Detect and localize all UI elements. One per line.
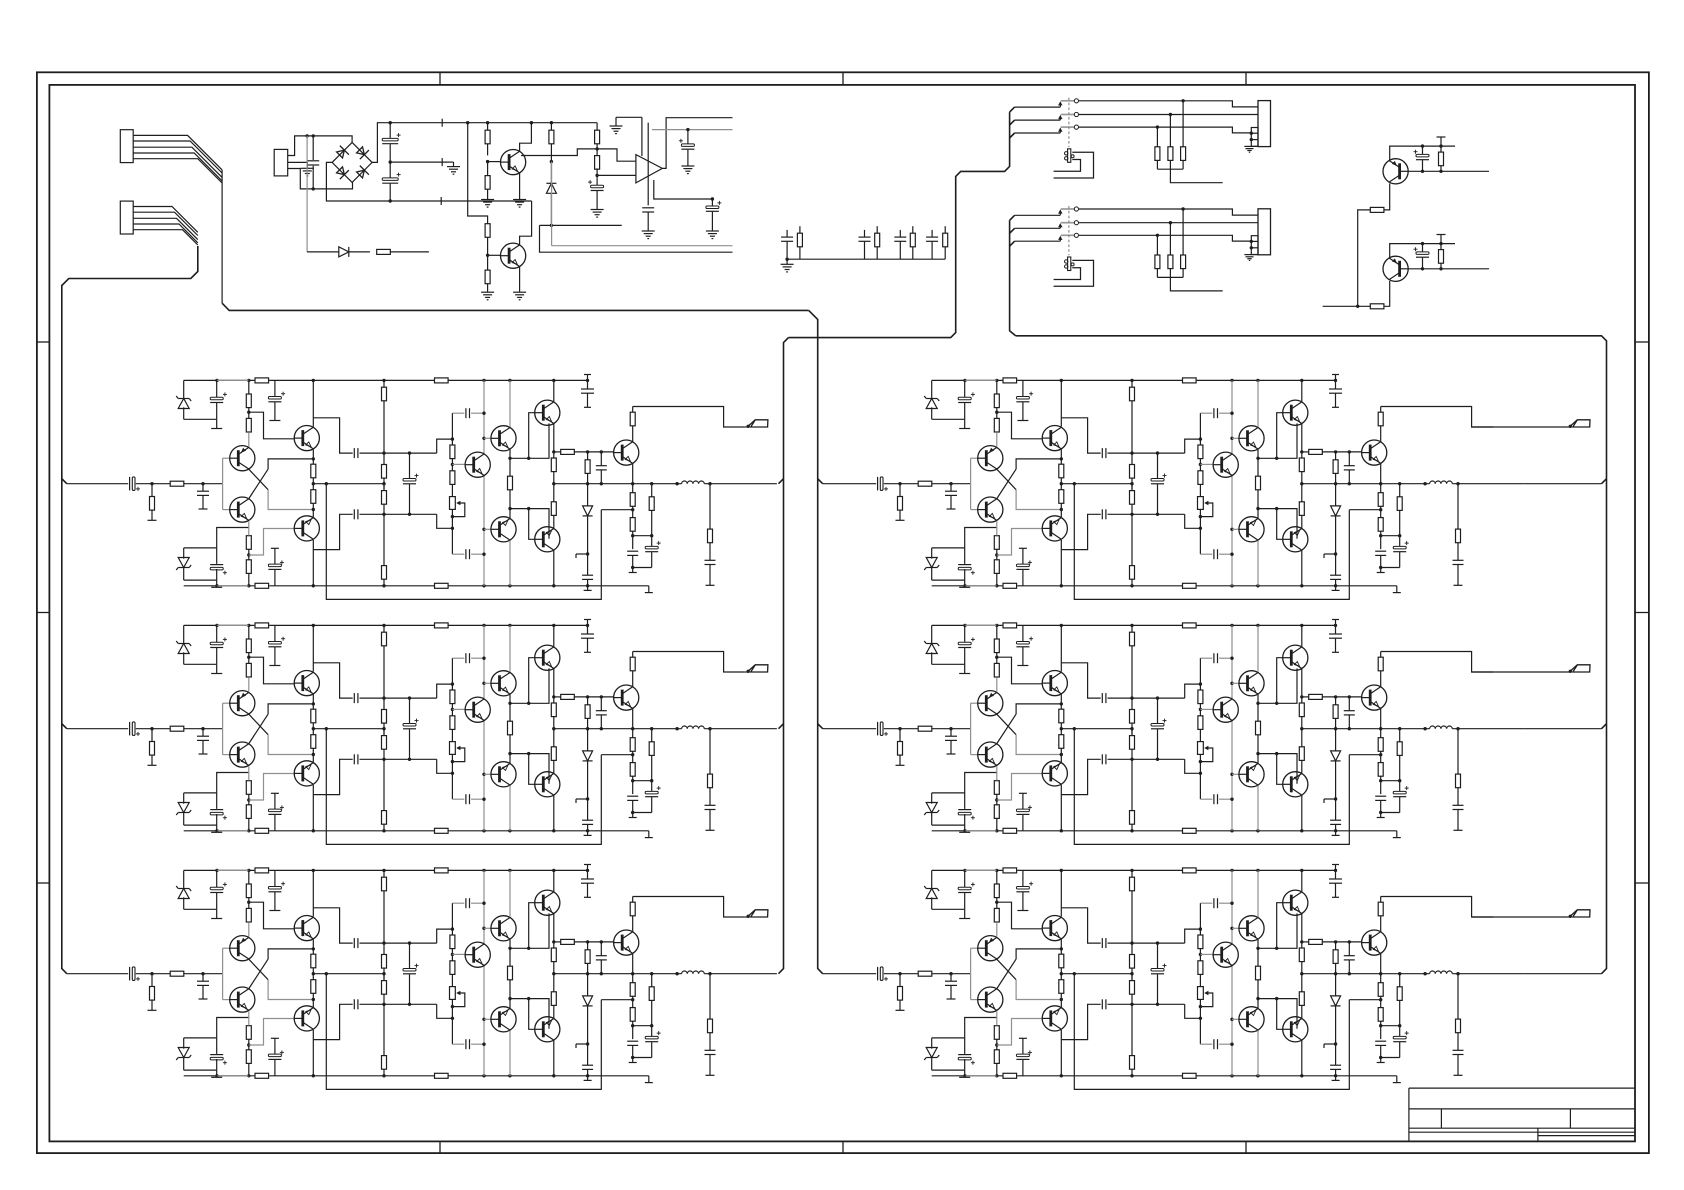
resistor: [944, 226, 946, 233]
wire: negative supply: [654, 180, 713, 199]
amplifier channel block (left middle): [130, 620, 777, 845]
wire: emitter: [1384, 184, 1390, 210]
RC snubber row: [787, 258, 945, 260]
wire: output flags left column: [745, 426, 748, 428]
resistor R33: [487, 255, 489, 270]
bus: relay feed (left outputs to group A): [789, 112, 1010, 338]
crossing ticks: [441, 119, 443, 127]
ground: [706, 230, 719, 232]
wire: bridge negative: [326, 162, 531, 201]
transistor Q22: [1383, 159, 1408, 184]
resistor R32: [485, 224, 490, 238]
ground: [681, 165, 694, 167]
resistor R43: [1370, 304, 1384, 309]
resistor: [799, 226, 801, 233]
ground: [591, 209, 604, 211]
ground: [1244, 254, 1258, 256]
bus: right input bus: [809, 310, 823, 973]
ground (Q21 emitter): [519, 267, 521, 293]
ground: [1244, 145, 1258, 147]
ground: [786, 259, 788, 264]
diode D20 + resistor R34 (aux line): [307, 251, 339, 253]
wire: right column output rail extensions: [1525, 483, 1602, 485]
resistor R41: [1370, 207, 1384, 212]
border zone ticks: [439, 72, 441, 85]
wire: op-amp output: [662, 118, 732, 169]
transistor Q20 (regulator upper): [500, 150, 525, 175]
amplifier channel block (right top): [878, 375, 1525, 600]
bus: left column output bus: [779, 338, 789, 974]
resistor R31: [487, 162, 489, 176]
connector J2 (bottom input): [120, 201, 133, 234]
wire: collector: [1390, 146, 1455, 160]
resistor R40: [1440, 146, 1442, 152]
wire: collector: [1390, 244, 1455, 258]
wire: J2 harness: [133, 207, 198, 233]
wire: [288, 136, 352, 156]
resistor: [876, 226, 878, 233]
capacitor C21 (filter electrolytic upper): [389, 123, 391, 139]
diode D21: [550, 162, 552, 184]
capacitor C25 (electrolytic): [687, 130, 689, 145]
wire: speaker lines: [1079, 209, 1258, 215]
wire: op-amp pins: [641, 117, 643, 156]
ground: [288, 162, 308, 168]
resistor R42: [1440, 244, 1442, 250]
relay contact lines group B: [1015, 214, 1061, 216]
wire: [540, 224, 622, 226]
amplifier channel block (right bottom): [878, 865, 1525, 1090]
capacitor C26 (electrolytic): [711, 199, 713, 207]
capacitor C28 (electrolytic): [1422, 244, 1424, 253]
capacitor: [899, 230, 901, 237]
wire: [488, 161, 501, 163]
resistor R35: [550, 123, 552, 130]
connector J1 (top input): [120, 130, 133, 163]
bus: relay feed (right outputs to group B): [1010, 220, 1016, 335]
wire: [652, 129, 733, 131]
wire: negative feed: [468, 123, 488, 224]
transistor Q21 (regulator lower): [500, 243, 525, 268]
wire: bridge positive to rail: [372, 123, 597, 163]
bridge rectifier BR1: [332, 142, 372, 182]
resistor: [912, 226, 914, 233]
capacitor C20 (X cap): [312, 136, 314, 160]
resistor R30: [487, 123, 489, 130]
bus: right column output bus: [1016, 336, 1607, 974]
connector J3 (mains/transformer): [274, 149, 288, 176]
wire: inverting input: [597, 174, 636, 176]
relay actuation dashed line: [1068, 98, 1070, 147]
speaker connector: [1258, 209, 1271, 255]
wire: Q21 collector: [520, 201, 532, 245]
amplifier channel block (right middle): [878, 620, 1525, 845]
capacitor C23 (electrolytic): [596, 175, 598, 186]
wire: speaker lines: [1079, 101, 1258, 107]
relay actuation dashed line: [1068, 206, 1070, 255]
relay contact lines group A: [1015, 106, 1061, 108]
speaker connector: [1258, 101, 1271, 147]
capacitor: [931, 230, 933, 237]
ground: [481, 291, 494, 293]
wire: Q20 collector: [520, 123, 532, 151]
wire: midpoint to ground: [390, 161, 448, 163]
capacitor C27 (electrolytic): [1422, 146, 1424, 155]
wire: block input feeds (left column): [67, 483, 128, 485]
wire: [488, 254, 501, 256]
relay coil: [1068, 257, 1071, 271]
op-amp U1: [636, 155, 662, 183]
resistor bank: [1182, 209, 1184, 255]
wire: +rail: [550, 121, 553, 124]
relay coil: [1068, 149, 1071, 163]
capacitor C24: [642, 207, 654, 209]
wire: J1 harness: [133, 135, 222, 170]
wire: block input feeds (right column): [823, 483, 877, 485]
resistor R37: [596, 149, 598, 157]
wire: [288, 169, 353, 189]
wire: emitter: [1384, 281, 1390, 306]
amplifier channel block (left top): [130, 375, 777, 600]
wire: output flag lines right column: [1472, 426, 1567, 428]
amplifier channel block (left bottom): [130, 865, 777, 1090]
supply terminal: [1440, 137, 1442, 146]
capacitor: [864, 230, 866, 237]
title block: [1409, 1087, 1635, 1089]
ground (op-amp top): [616, 116, 642, 118]
wire: non-inverting input: [521, 149, 597, 156]
wire: base line: [1408, 268, 1489, 270]
capacitor: [786, 230, 788, 237]
wire: aux dc line: [306, 136, 308, 252]
ground: [481, 199, 494, 201]
transistor Q23: [1383, 256, 1408, 281]
capacitor C22 (filter electrolytic lower): [389, 162, 391, 179]
resistor bank: [1182, 101, 1184, 147]
wire: base line: [1408, 170, 1489, 172]
wire: left input bus (from connector J2): [62, 246, 198, 974]
supply terminal: [1440, 235, 1442, 244]
ground (Q20 emitter): [519, 173, 521, 200]
resistor R36: [596, 123, 598, 130]
